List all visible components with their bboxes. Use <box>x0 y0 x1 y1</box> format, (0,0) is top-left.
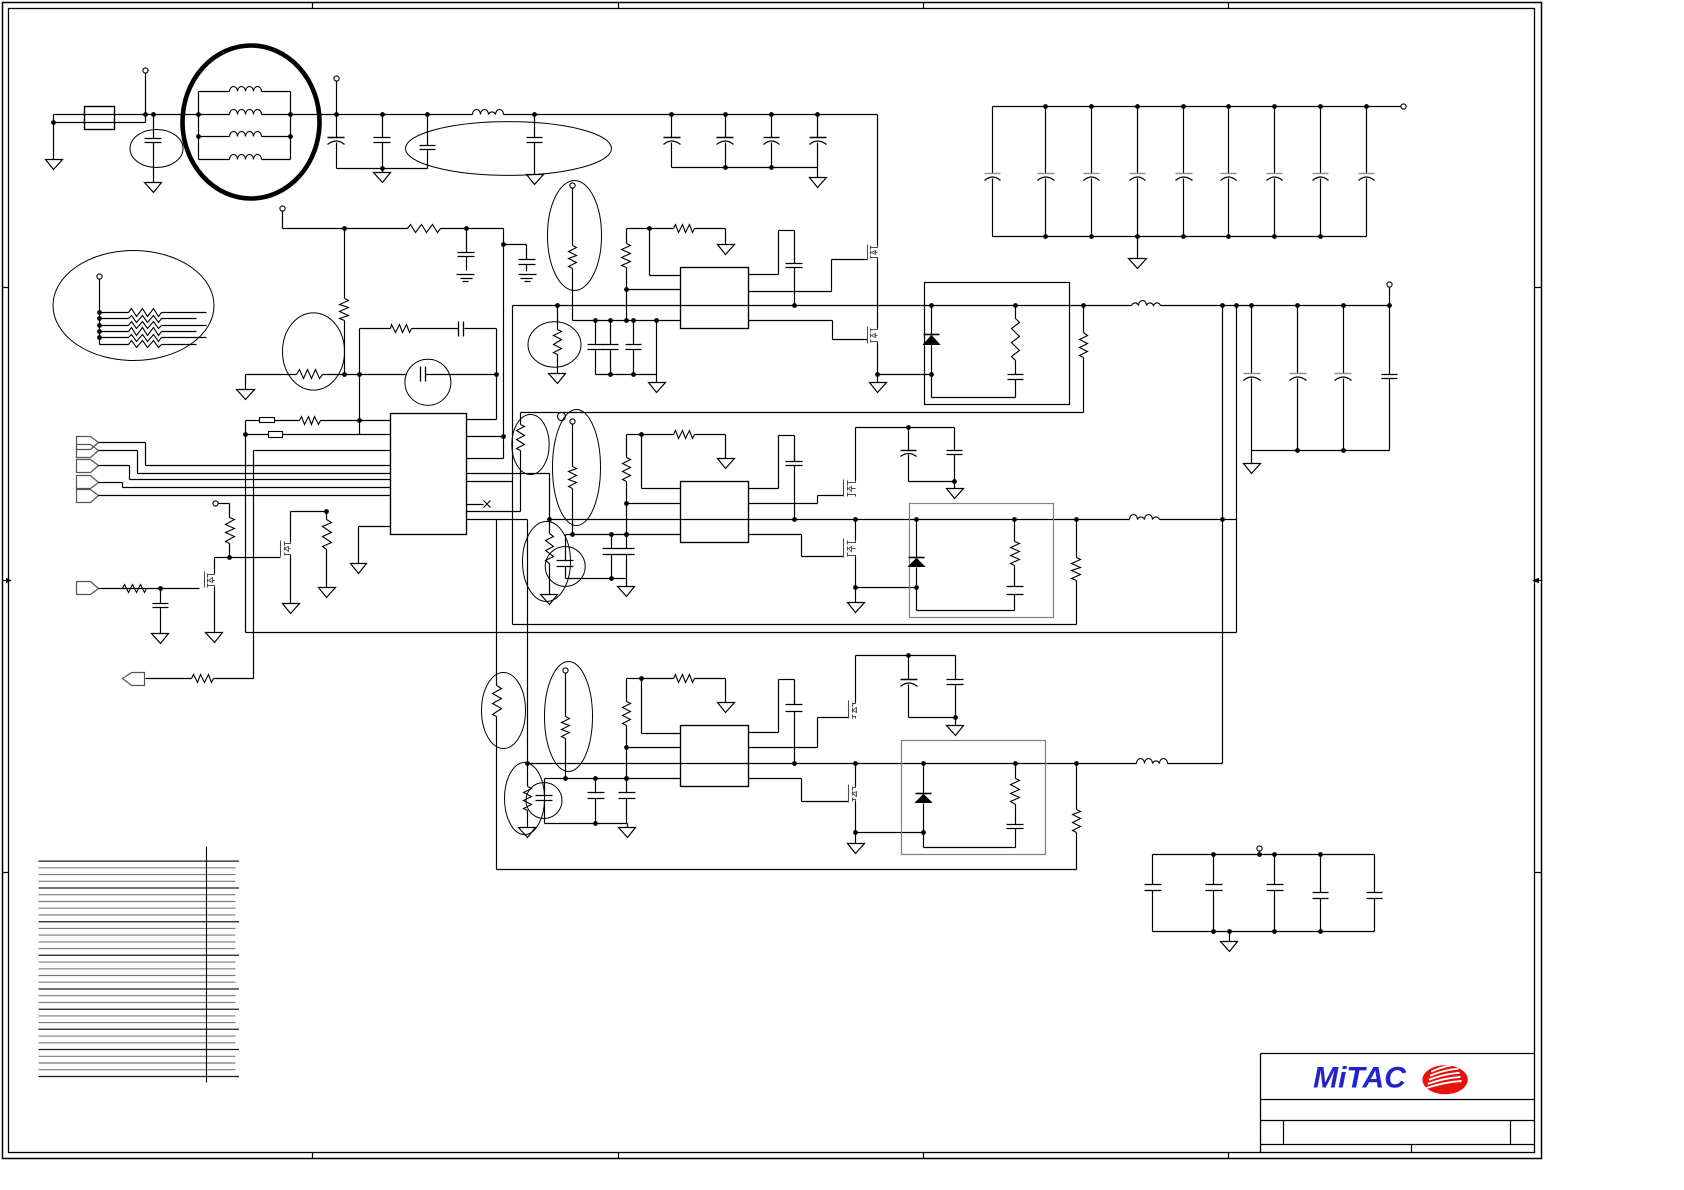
resistor R3E <box>1011 779 1020 805</box>
stage1 higate b <box>831 260 833 292</box>
transistor Q2B <box>844 539 856 558</box>
ground stage3 top <box>718 703 735 713</box>
ellipse annotation resistor fan <box>53 251 214 361</box>
junction R16 top <box>324 509 329 514</box>
capacitor C3B <box>619 779 636 824</box>
fan wire 4a <box>100 331 129 333</box>
stage3 logate c <box>802 801 849 803</box>
PWM driver U3 <box>681 482 749 543</box>
stage2 bottom row wire <box>566 534 681 536</box>
fan junction y318 <box>97 316 102 321</box>
stage1 source to diode <box>878 374 932 376</box>
fuse F1 <box>85 107 115 130</box>
junction R10 node <box>357 418 362 423</box>
junction bus cap branch <box>151 112 156 117</box>
stage3 junction cappair <box>906 653 911 658</box>
stage3 terminal VID <box>563 668 568 673</box>
resistor R3D <box>524 787 532 811</box>
frame bottom zone tick x=1228.5 <box>1228 1153 1230 1159</box>
junction bank1 bottom x1137 <box>1135 234 1140 239</box>
stage1 divider lead <box>572 189 574 246</box>
stage2 snubber box <box>910 504 1054 618</box>
trunk2 vertical <box>1236 306 1238 633</box>
comp loop top wire c <box>465 328 497 330</box>
stage3 junction cappair bottom <box>953 715 958 720</box>
capacitor C1E bootstrap <box>786 259 803 306</box>
resistor R15 <box>123 585 147 593</box>
bank3 junction top x1274 <box>1272 852 1277 857</box>
stage3 junction boot rail <box>792 761 797 766</box>
ellipse annotation around R11 <box>283 313 345 390</box>
fan junction y312 <box>97 310 102 315</box>
junction bank1 top x1366 <box>1364 104 1369 109</box>
comp loop top wire a <box>360 328 391 330</box>
bank2 junction top x1251 <box>1249 303 1254 308</box>
connector J4 wire b <box>122 483 124 488</box>
trunk1 vertical <box>1222 306 1224 764</box>
ferrite bead FB2 <box>269 432 283 438</box>
capacitor CB1-3 polarized <box>1084 107 1100 237</box>
no-connect X mark <box>484 501 491 508</box>
stage2 caps bottom wire <box>566 578 627 580</box>
R1F lead <box>1083 306 1085 333</box>
connector J3 wire b <box>129 466 131 480</box>
frame right zone tick y=872 <box>1535 872 1542 874</box>
terminal +VIN <box>143 68 148 73</box>
stage1 terminal VID <box>570 183 575 188</box>
resistor R1A <box>674 225 695 233</box>
stage3 top wire gnd stem <box>725 679 727 703</box>
Q4 drain wire a <box>290 512 292 542</box>
stage1 top wire gnd stem <box>725 229 727 245</box>
junction bank1 bottom x1320 <box>1318 234 1323 239</box>
stage1 boot col vertical <box>649 229 651 276</box>
stage1 junction caps bottom <box>608 372 613 377</box>
diode D1 <box>924 335 940 345</box>
connector J1 <box>77 437 99 450</box>
connector J1 bus line <box>146 465 391 467</box>
ground below C1 <box>145 183 162 193</box>
L-block right rail <box>290 92 292 160</box>
stage3 Q3B source <box>855 802 857 833</box>
stage3 top wire <box>627 678 642 680</box>
stage1 divider lead b <box>572 269 574 321</box>
bank2 junction top x1342 <box>1341 303 1346 308</box>
capacitor CB1-9 polarized <box>1359 107 1375 237</box>
ellipse annotation stage2 divider <box>553 410 601 526</box>
stage1 higate a <box>749 291 832 293</box>
stage2 R col lead b <box>626 482 628 535</box>
ground below C3 <box>374 173 391 183</box>
stage2 source to diode <box>856 587 917 589</box>
stage2 higate b <box>817 496 819 504</box>
stage1 junction rail diode <box>929 303 934 308</box>
stage3 boot trace a <box>749 732 779 734</box>
inductor L8 <box>1137 759 1168 764</box>
inductor L2 <box>230 110 262 115</box>
U1 gnd stem x358 <box>358 527 360 564</box>
R14 to node <box>229 544 231 558</box>
connector J2 wire a <box>99 450 138 452</box>
stage2 junction top wire <box>639 432 644 437</box>
stage1 junction caps bottom2 <box>631 372 636 377</box>
stage1 gnd stem q <box>877 375 879 383</box>
junction L-block left row3 <box>196 134 201 139</box>
frame left center arrow <box>3 579 11 583</box>
ground below Q3 <box>206 633 223 643</box>
U1 right pin wire y435 <box>467 436 504 438</box>
ground below bank2 <box>1244 464 1261 474</box>
stage1 junction rail R1E <box>1013 303 1018 308</box>
input wire bottom riser <box>145 115 147 123</box>
title block bottom row divider <box>1411 1145 1413 1153</box>
Q3 drain wire <box>214 558 216 574</box>
capacitor C2F polarized <box>901 428 917 482</box>
frame bottom zone tick x=923 <box>923 1153 925 1159</box>
VTT lead <box>282 212 284 229</box>
resistor RF5 <box>129 335 162 342</box>
U1 pin wire RT upper <box>246 420 260 422</box>
L-block row2 wire right <box>262 114 291 116</box>
transistor Q3 <box>205 572 215 588</box>
stage3 R col lead <box>626 679 628 702</box>
junction bus cap group x771 <box>769 112 774 117</box>
U1 pin wire RT upper b <box>275 420 300 422</box>
capacitor C3E bootstrap <box>786 701 803 764</box>
L-block row3 wire right <box>262 136 291 138</box>
frame left zone tick y=287 <box>3 287 9 289</box>
circle annotation around C3C <box>526 783 562 819</box>
stage1 IC pin wire 2 <box>627 289 681 291</box>
stage1 junction bottom row <box>624 318 629 323</box>
stage2 boot trace a <box>749 488 779 490</box>
inductor L3 <box>230 132 262 137</box>
stage3 top wire b <box>642 678 674 680</box>
ground stage2 cappair <box>947 489 964 499</box>
ellipse annotation around R18 <box>482 673 526 749</box>
VREF lead <box>219 503 230 505</box>
junction bank1 top x1183 <box>1181 104 1186 109</box>
ground below bank1 <box>1129 259 1147 269</box>
stage1 top wire c <box>695 228 726 230</box>
terminal VIN lead <box>145 74 147 115</box>
junction bus cap group x724 <box>723 112 728 117</box>
stage2 junction bottom row c1 <box>609 532 614 537</box>
trunk x503 <box>503 229 505 459</box>
stage3 junction rail R3F <box>1074 761 1079 766</box>
bank1 top rail <box>993 106 1401 108</box>
controller IC U1 <box>391 414 467 535</box>
bank2 junction bottom x1297 <box>1295 448 1300 453</box>
junction J6 cap node <box>158 586 163 591</box>
junction x503 y435 <box>501 434 506 439</box>
stage2 rail feed vertical <box>549 474 551 520</box>
junction y228 x343 <box>342 226 347 231</box>
stage1 top wire b <box>650 228 674 230</box>
chassis ground below C12 <box>519 275 537 282</box>
comp vertical x358 <box>359 329 361 435</box>
capacitor C1B <box>603 321 619 375</box>
ground below R2D <box>541 595 558 605</box>
stage1 junction bottom row x656 <box>654 318 659 323</box>
title block row3 bottom line <box>1261 1144 1535 1146</box>
trunk x253 <box>253 451 255 679</box>
connector J2 <box>77 445 99 458</box>
frame top zone tick x=617.5 <box>618 3 620 9</box>
stage2 boot col vertical <box>641 435 643 489</box>
resistor R20 <box>408 225 441 233</box>
terminal VREF <box>213 501 218 506</box>
R21 lead bottom <box>344 321 346 375</box>
comp gnd stem <box>245 375 247 390</box>
stage3 top wire c <box>695 678 726 680</box>
terminal VIN2 <box>334 76 339 81</box>
stage2 junction rail trunk1 <box>1220 517 1225 522</box>
fan wire 4b <box>162 331 197 333</box>
C1 gnd stem <box>153 177 155 183</box>
fan wire 5a <box>100 337 129 339</box>
stage2 box bottom wire <box>917 610 1015 612</box>
stage2 output rail b <box>1160 519 1237 521</box>
stage3 higate c <box>818 717 849 719</box>
resistor R2D <box>546 534 554 564</box>
stage3 boot cap lead <box>794 680 796 705</box>
junction bus x427 <box>425 112 430 117</box>
trunk x526 down <box>527 520 529 764</box>
stage3 cappair bottom wire <box>909 717 956 719</box>
fan wire 2b <box>162 318 197 320</box>
ground below R16 <box>319 588 336 598</box>
capacitor CB2-3 polarized <box>1335 306 1352 451</box>
feedback stage1 wire <box>521 412 1084 414</box>
resistor R14 <box>226 518 235 544</box>
stage2 junction source node <box>853 585 858 590</box>
bank3 junction bottom x1213 <box>1211 929 1216 934</box>
fan wire 5b <box>162 337 207 339</box>
stage2 Cdiv lead <box>565 535 567 550</box>
thick highlight circle around L-block <box>183 46 320 199</box>
fan junction y337 <box>97 335 102 340</box>
stage2 gnd stem caps <box>626 579 628 587</box>
inductor L1 <box>230 87 262 92</box>
stage2 junction bottom row <box>624 532 629 537</box>
junction rail C3 <box>380 166 385 171</box>
capacitor C1C <box>626 321 642 375</box>
ellipse annotation around R2D <box>523 522 571 602</box>
capacitor CB1-5 polarized <box>1176 107 1193 237</box>
terminal VIN2 lead <box>336 82 338 115</box>
ground stage2 source <box>848 603 865 613</box>
title block row3 right cell divider <box>1510 1121 1512 1145</box>
stage2 R col lead <box>626 435 628 458</box>
bank3 junction terminal <box>1257 852 1262 857</box>
bank2 junction top x1297 <box>1295 303 1300 308</box>
stage2 boot cap lead <box>794 436 796 462</box>
stage1 diode vertical b <box>931 345 933 398</box>
J7 wire b <box>214 678 254 680</box>
Q3 gate wire <box>99 588 200 590</box>
stage2 boot trace c <box>779 435 795 437</box>
connector J4 bus line <box>123 487 391 489</box>
capacitor CB1-4 polarized <box>1130 107 1146 237</box>
ground below C13 <box>152 634 169 644</box>
resistor R16 <box>323 520 332 550</box>
bank1 gnd stem <box>1137 237 1139 259</box>
connector J5 <box>77 490 99 503</box>
junction group rail x724 <box>723 165 728 170</box>
U1 pin wire RT upper c <box>321 420 391 422</box>
bank3 bottom rail <box>1153 931 1375 933</box>
junction x245 y434 <box>243 432 248 437</box>
bank3 gnd stem <box>1229 932 1231 942</box>
stage2 junction bottom row c2 <box>624 532 629 537</box>
resistor RF2 <box>129 316 162 323</box>
L-block row4 wire right <box>262 159 291 161</box>
notes table vertical rule <box>206 847 208 1083</box>
ellipse annotation around R1D <box>528 322 581 367</box>
junction L-block left row2 <box>196 112 201 117</box>
junction bank1 top x1274 <box>1272 104 1277 109</box>
R3D lead a <box>527 764 529 787</box>
gate node left <box>215 557 230 559</box>
stage2 top wire <box>627 434 642 436</box>
input wire bottom through fuse <box>54 122 146 124</box>
chassis ground below C14 <box>457 275 475 282</box>
L-block row1 wire left <box>199 91 230 93</box>
terminal VTT <box>280 206 285 211</box>
stage3 junction source node <box>853 830 858 835</box>
stage1 R col lead <box>626 229 628 244</box>
title block top line <box>1261 1053 1535 1055</box>
junction L-block right row3 <box>288 134 293 139</box>
stage3 logate b <box>801 779 803 802</box>
stage1 output rail b <box>1161 305 1390 307</box>
stage1 snubber box <box>925 283 1070 405</box>
R1D lead bottom <box>557 355 559 374</box>
junction fuse out <box>143 112 148 117</box>
capacitor C12 <box>519 245 536 272</box>
ctrl trunk x245 down <box>245 435 247 633</box>
notes table rule lines <box>39 861 240 1076</box>
title block left edge <box>1260 1054 1262 1153</box>
stage1 boot trace a <box>749 274 779 276</box>
comp loop bottom wire <box>467 419 497 421</box>
resistor R1B <box>622 244 631 268</box>
stage2 output rail <box>550 519 1130 521</box>
capacitor CB3-1 <box>1145 855 1162 932</box>
comp wire y373 mid <box>323 374 406 376</box>
stage2 divider lead <box>572 425 574 467</box>
capacitor C2B <box>619 535 635 579</box>
bank3 junction bottom x1319 <box>1318 929 1323 934</box>
stage1 junction bottom row x632 <box>631 318 636 323</box>
stage2 boot trace b <box>778 436 780 489</box>
capacitor C4 <box>420 115 436 169</box>
stage3 divider lead b <box>565 739 567 779</box>
stage3 gnd stem caps <box>627 824 629 828</box>
stage3 junction bottom row <box>624 776 629 781</box>
connector J6 <box>77 582 99 595</box>
stage2 cappair bottom wire <box>909 481 955 483</box>
bank2 junction bottom x1342 <box>1341 448 1346 453</box>
R1D lead top <box>557 306 559 330</box>
capacitor C7 polarized <box>717 115 734 168</box>
junction input gnd <box>51 120 56 125</box>
capacitor C3 <box>374 115 391 169</box>
stage3 higate a <box>749 747 818 749</box>
terminal Vout3 <box>1257 846 1262 851</box>
stage1 logate a <box>749 320 833 322</box>
capacitor CB1-8 polarized <box>1313 107 1329 237</box>
diode D2 <box>909 558 925 567</box>
fan vertical <box>99 279 101 345</box>
ellipse annotation stage1 divider <box>548 181 602 291</box>
C13 gnd stem <box>160 626 162 634</box>
capacitor C1A <box>588 321 604 375</box>
connector J3 bus line <box>130 479 391 481</box>
junction bank1 top x1320 <box>1318 104 1323 109</box>
fan wire 1a <box>100 312 129 314</box>
connector J2 wire b <box>137 451 139 474</box>
capacitor C2 polarized <box>328 115 345 169</box>
capacitor CB1-2 polarized <box>1038 107 1055 237</box>
title block row3 left cell divider <box>1283 1121 1285 1145</box>
stage3 output rail <box>528 763 1137 765</box>
stage3 junction bottom row c2 <box>624 776 629 781</box>
stage1 box bottom wire <box>932 397 1016 399</box>
frame right zone tick y=287 <box>1535 287 1542 289</box>
fan wire 6a <box>100 344 129 346</box>
resistor R2C <box>569 467 577 489</box>
stage3 output rail b <box>1168 763 1223 765</box>
junction comp x496 <box>494 372 499 377</box>
stage2 logate b <box>801 535 803 557</box>
stage2 divider lead b <box>572 489 574 535</box>
terminal VcoreIN <box>1401 104 1406 109</box>
stage2 junction caps bottom <box>609 576 614 581</box>
stage2 diode vertical a <box>916 520 918 558</box>
ellipse annotation stage3 divider <box>545 662 593 772</box>
frame right center arrow <box>1534 579 1542 583</box>
title block row2 bottom line <box>1261 1120 1535 1122</box>
stage2 Q2B drain <box>855 520 857 541</box>
Q4 gate wire <box>230 557 281 559</box>
bank2 junction top x1389 <box>1387 303 1392 308</box>
stage1 junction boot rail <box>792 303 797 308</box>
input wire top corner <box>53 115 55 123</box>
bank2 gnd stem <box>1251 451 1253 464</box>
ellipse annotation input filter <box>406 122 612 176</box>
stage2 junction cappair <box>906 425 911 430</box>
ground stage2 top <box>718 459 735 469</box>
stage1 boot cap lead <box>794 231 796 264</box>
fan junction y324 <box>97 323 102 328</box>
capacitor C6 polarized <box>664 115 681 168</box>
stage3 cappair top wire <box>856 655 956 657</box>
stage3 diode vertical b <box>923 804 925 848</box>
stage3 junction divider bottom <box>563 776 568 781</box>
ellipse annotation around C1 <box>130 130 183 168</box>
stage1 junction rail trunk2 <box>1234 303 1239 308</box>
R3D lead bottom <box>527 811 529 828</box>
U1 right pin wire y503 nc <box>467 504 484 506</box>
capacitor CB1-1 polarized <box>985 107 1001 237</box>
connector J1 wire a <box>99 442 146 444</box>
R21 lead top <box>344 229 346 299</box>
transistor Q2A <box>844 480 856 497</box>
stage3 Q3B drain <box>855 764 857 787</box>
frame top zone tick x=312 <box>312 3 314 9</box>
